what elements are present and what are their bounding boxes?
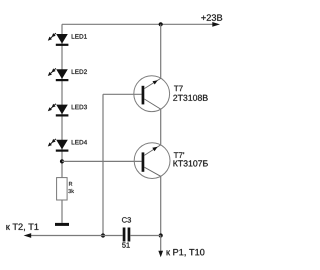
label k T2, T1: [6, 224, 38, 232]
wire: T7 base to bottom rail: [102, 94, 104, 235]
transistor T7': [134, 143, 170, 179]
wire: output down: [160, 236, 162, 252]
terminal arrow to T2,T1: [24, 233, 32, 238]
wire: LED chain vertical: [61, 24, 63, 177]
node: bottom rail / output junction: [159, 233, 163, 237]
value 3k: [68, 189, 74, 193]
node: top rail / T7 emitter junction: [159, 22, 163, 26]
power +23V arrow: [212, 22, 220, 27]
label LED3: [72, 105, 87, 110]
ground bar: [55, 223, 69, 226]
wire: T7 collector to T7' emitter: [160, 109, 162, 145]
label +23V: [201, 14, 222, 21]
value 2T3108V: [173, 95, 208, 101]
value KT3107B: [174, 160, 208, 166]
node: LED4 cathode / T7' base junction: [60, 159, 64, 163]
wire: T7 emitter to +23V rail: [160, 24, 162, 78]
wire: bottom rail right segment: [130, 235, 160, 237]
LED LED3: [48, 104, 69, 117]
wire: +23V top rail: [62, 23, 213, 25]
label T7': [174, 152, 184, 158]
label T7: [174, 86, 183, 92]
label k P1, T10: [167, 249, 205, 257]
terminal arrow to P1,T10: [158, 251, 163, 257]
resistor R: [57, 178, 68, 200]
label LED4: [72, 140, 87, 144]
LED LED4: [48, 139, 69, 152]
LED LED1: [48, 33, 69, 46]
value 51: [122, 243, 130, 248]
capacitor C3: [123, 228, 131, 242]
wire: T7' collector to bottom rail: [160, 176, 162, 235]
wire: T7 base horizontal: [103, 93, 142, 95]
label LED1: [72, 34, 87, 38]
LED LED2: [48, 68, 69, 81]
wire: bottom rail left segment: [31, 235, 123, 237]
label C3: [122, 217, 131, 222]
wire: T7' base: [62, 160, 142, 162]
label R: [69, 182, 72, 186]
transistor T7: [134, 76, 170, 112]
node: base wire / bottom rail junction: [101, 233, 105, 237]
label LED2: [72, 69, 87, 74]
wire: resistor to ground bar: [61, 200, 63, 223]
